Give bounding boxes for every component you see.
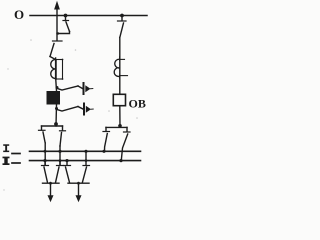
circuit breaker Q1 (oil breaker, closed = filled) bbox=[47, 91, 61, 105]
fork bar (bus-selector) bbox=[42, 125, 63, 127]
wire: incoming line vertical bbox=[56, 8, 58, 41]
junction at OV fork bbox=[118, 124, 122, 128]
label II (bus II) bbox=[3, 157, 10, 165]
disconnector to test terminal (lower branch) bbox=[57, 107, 78, 112]
wire: breaker to bus-selector fork bbox=[55, 105, 58, 127]
junction on transfer bus bbox=[64, 14, 68, 18]
disconnector QS9 (feeder1 from bus I via crossing, right) bbox=[56, 161, 64, 183]
disconnector QS11 (feeder2 from bus I, right) bbox=[83, 152, 90, 182]
wire: CT to breaker bbox=[55, 79, 58, 92]
junction: QS7 at bus II bbox=[119, 159, 122, 162]
junction at fork bbox=[54, 122, 58, 126]
label I (bus I) bbox=[3, 144, 9, 152]
current transformer CT2 (loops with tail) bbox=[114, 57, 127, 78]
junction: QS6 at bus I bbox=[102, 150, 105, 153]
disconnector QS3 (feeder to bus II, left fork) bbox=[39, 126, 46, 165]
disconnector QS10 (feeder2 from bus II, left) bbox=[64, 161, 71, 183]
transfer bus O (top horizontal busbar) bbox=[30, 15, 147, 17]
feeder1 join bar bbox=[43, 182, 60, 184]
wire: feeder2 stem bbox=[78, 183, 80, 196]
disconnector QS7 (bypass to bus II) bbox=[121, 127, 130, 160]
feeder1 outgoing arrow bbox=[48, 195, 54, 202]
bus I lead-in dash bbox=[12, 153, 20, 155]
bypass circuit breaker OV (open = hollow) bbox=[113, 94, 125, 105]
junction: QS4/feeder1 at bus II crossing bbox=[59, 159, 62, 162]
feeder2 join bar bbox=[68, 182, 89, 184]
svg-text:O: O bbox=[14, 7, 24, 22]
terminal symbol (lower): bar + solid wedge bbox=[78, 104, 93, 115]
wire: to bypass CT bbox=[119, 38, 121, 61]
junction: feeder2 right at bus I bbox=[84, 150, 87, 153]
wire: feeder1 stem bbox=[50, 183, 52, 196]
current transformer CT1 (loops with secondary rectangle) bbox=[51, 58, 64, 80]
junction: QS3 at bus I crossing bbox=[44, 150, 47, 153]
disconnector QS6 (bypass to bus I) bbox=[103, 127, 110, 151]
terminal symbol (upper): bar + solid wedge bbox=[78, 83, 93, 94]
feeder2 outgoing arrow bbox=[76, 195, 82, 202]
disconnector QS1 (transfer-bus selector) bbox=[57, 16, 70, 35]
bus II (lower main busbar) bbox=[30, 160, 141, 162]
junction on transfer bus (bypass) bbox=[120, 14, 124, 18]
disconnector QS8 (feeder1 from bus II, left) bbox=[42, 161, 49, 183]
junction: QS4 at bus I bbox=[58, 150, 61, 153]
junction below breaker bbox=[55, 107, 58, 110]
junction above breaker bbox=[56, 86, 59, 89]
wire: OV to fork bbox=[119, 106, 121, 127]
junction: feeder2 left at bus II bbox=[65, 159, 68, 162]
bus I (upper main busbar) bbox=[30, 150, 141, 152]
disconnector QS5 (bypass, from transfer bus) bbox=[118, 16, 127, 38]
disconnector QS2 (line disconnector) bbox=[50, 41, 62, 60]
disconnector QS4 (feeder to bus I, right fork) bbox=[60, 126, 66, 165]
disconnector to test terminal (upper branch) bbox=[58, 86, 79, 90]
wire: CT to bypass breaker bbox=[119, 76, 121, 95]
bus II lead-in dash bbox=[12, 162, 20, 164]
junction: feeder2 right at bus II crossing bbox=[85, 159, 88, 162]
incoming line arrow (to system) bbox=[54, 1, 60, 10]
junction: QS3/feeder1 at bus II bbox=[43, 159, 46, 162]
fork bar (bypass bus-selector) bbox=[106, 126, 127, 128]
svg-text:ОВ: ОВ bbox=[129, 97, 146, 111]
